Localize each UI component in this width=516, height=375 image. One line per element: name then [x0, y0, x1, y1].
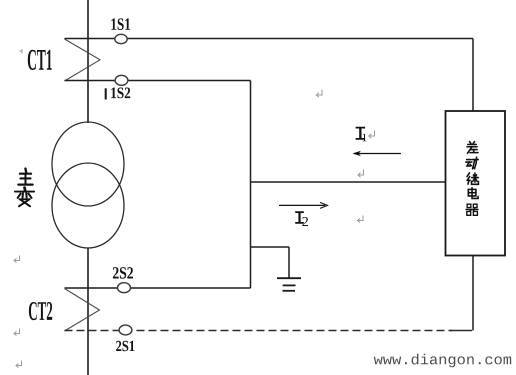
wire: right vertical from top wire down to relay (x=473) [472, 39, 474, 112]
terminal 1S1 [115, 34, 127, 43]
terminal 1S2 [115, 75, 128, 85]
label 2S1 [116, 341, 134, 351]
label 2S2 [113, 267, 133, 279]
terminal 2S2 [118, 283, 131, 293]
电 [468, 188, 478, 199]
label CT1 [28, 50, 52, 70]
label 1S1 [111, 18, 130, 30]
动 [466, 157, 478, 169]
wire: CT1 secondary top (1S1 wire, y=38.5) [65, 38, 474, 40]
label I1 [356, 127, 367, 141]
器 [466, 204, 478, 215]
wire: ground branch horizontal (y=247) [251, 246, 290, 248]
wire: junction vertical x=250.5 from 1S2 wire to 2S2 wire [250, 81, 252, 289]
继 [467, 173, 478, 184]
wire: CT2 secondary bottom dashed (2S1 wire, y=330.5) [65, 330, 473, 332]
CT CT1 (current transformer symbol, chevron) [65, 39, 101, 81]
relay U1 differential relay box [446, 111, 506, 256]
label 差动继电器 (differential relay), hand-drawn glyphs [466, 142, 479, 216]
current arrow I2 (rightwards) [279, 202, 328, 208]
wire: primary bus vertical lower segment [87, 248, 89, 375]
wire: ground branch vertical drop [288, 247, 290, 278]
transformer T1 (main transformer, two windings) [52, 122, 124, 248]
paragraph-mark artifacts (gray) [14, 49, 375, 368]
wire: primary bus vertical upper segment [87, 0, 89, 123]
wire: right vertical from relay bottom to bottom wire [472, 256, 474, 331]
current arrow I1 (leftwards) [353, 151, 402, 156]
wire: CT2 secondary top (2S2 wire, y=288) [65, 287, 251, 289]
watermark www.diangon.com [374, 354, 511, 368]
label I2 [295, 211, 308, 226]
差 [467, 142, 478, 154]
label 1S2 (with leading bar) [105, 88, 131, 100]
label 主变 (main transformer), hand-drawn glyphs [15, 169, 34, 207]
CT CT2 (current transformer symbol, chevron) [65, 289, 100, 332]
label CT2 [29, 302, 52, 320]
ground [277, 278, 301, 291]
wire: middle wire to relay (y=182) [251, 181, 446, 183]
terminal 2S1 [119, 325, 132, 335]
wire: CT1 secondary bottom (1S2 wire, y=80.5) [65, 80, 251, 82]
